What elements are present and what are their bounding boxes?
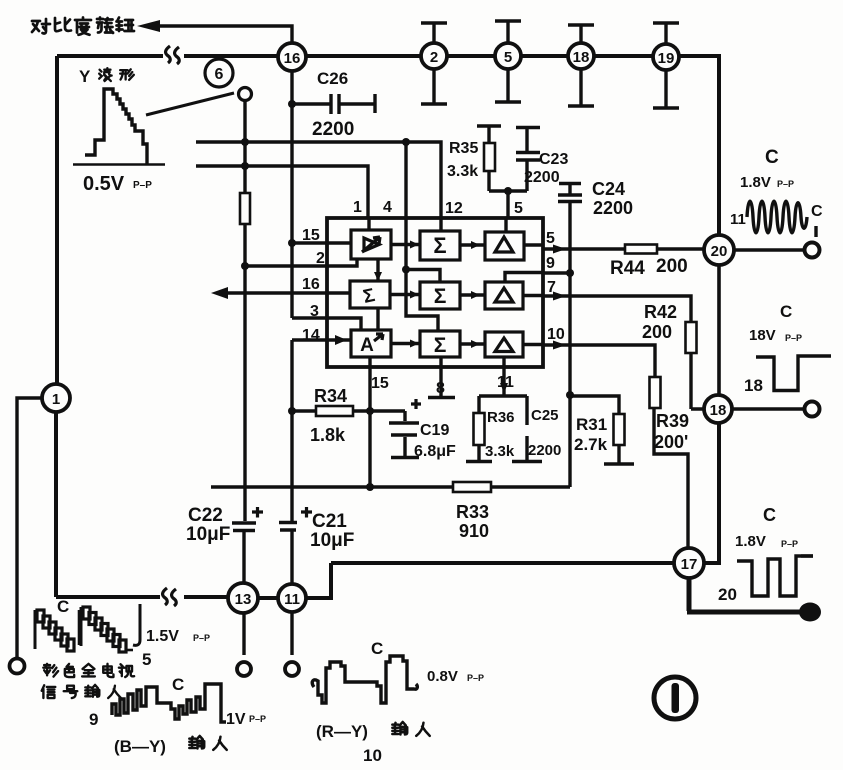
svg-text:18: 18: [573, 49, 590, 66]
svg-text:2200: 2200: [312, 119, 354, 140]
svg-text:1V: 1V: [226, 711, 246, 728]
svg-text:(B—Y): (B—Y): [114, 737, 166, 756]
svg-text:17: 17: [681, 556, 698, 573]
svg-text:0.5V: 0.5V: [83, 173, 125, 195]
svg-text:R31: R31: [576, 415, 607, 434]
svg-text:3: 3: [310, 303, 319, 320]
svg-text:15: 15: [371, 375, 389, 392]
svg-text:11: 11: [497, 374, 514, 391]
svg-text:2: 2: [316, 250, 325, 267]
svg-text:1.8k: 1.8k: [310, 425, 346, 445]
svg-text:C19: C19: [420, 422, 449, 439]
svg-text:2: 2: [430, 49, 438, 66]
svg-text:C: C: [811, 203, 823, 220]
svg-text:Y: Y: [79, 67, 91, 86]
svg-text:C25: C25: [531, 407, 559, 424]
svg-text:C: C: [172, 675, 184, 694]
svg-text:R42: R42: [644, 302, 677, 322]
svg-text:Σ: Σ: [434, 334, 447, 357]
svg-text:200: 200: [642, 322, 672, 342]
svg-text:14: 14: [302, 327, 320, 344]
svg-text:P–P: P–P: [785, 333, 802, 343]
svg-text:R35: R35: [449, 140, 478, 157]
svg-text:5: 5: [142, 650, 151, 669]
svg-text:18V: 18V: [749, 327, 776, 344]
svg-text:R36: R36: [487, 409, 515, 426]
svg-text:18: 18: [710, 402, 727, 419]
svg-text:P–P: P–P: [781, 539, 798, 549]
svg-text:10: 10: [547, 326, 565, 343]
svg-text:3.3k: 3.3k: [485, 443, 515, 460]
svg-text:C: C: [57, 597, 69, 616]
svg-text:C24: C24: [592, 179, 625, 199]
svg-text:1.5V: 1.5V: [146, 628, 179, 645]
svg-text:0.8V: 0.8V: [427, 668, 458, 685]
svg-text:C23: C23: [539, 151, 568, 168]
svg-text:C: C: [765, 147, 779, 168]
svg-text:18: 18: [744, 376, 763, 395]
svg-text:10μF: 10μF: [310, 530, 354, 551]
svg-text:C: C: [763, 505, 776, 525]
svg-text:5: 5: [546, 230, 555, 247]
svg-text:R39: R39: [656, 411, 689, 431]
svg-text:1: 1: [353, 199, 362, 216]
svg-text:P–P: P–P: [467, 673, 484, 683]
svg-text:5: 5: [514, 200, 523, 217]
svg-text:P–P: P–P: [777, 179, 794, 189]
svg-text:2.7k: 2.7k: [574, 435, 608, 454]
svg-text:4: 4: [383, 199, 392, 216]
svg-text:10: 10: [363, 746, 382, 765]
svg-text:Σ: Σ: [433, 233, 446, 258]
svg-text:2200: 2200: [528, 442, 561, 459]
svg-text:9: 9: [89, 710, 98, 729]
svg-text:16: 16: [284, 50, 301, 67]
svg-text:6: 6: [215, 66, 224, 83]
svg-text:Σ: Σ: [434, 285, 447, 308]
svg-text:8: 8: [436, 380, 445, 397]
svg-text:20: 20: [718, 585, 737, 604]
svg-text:P–P: P–P: [193, 633, 210, 643]
svg-text:(R—Y): (R—Y): [316, 722, 368, 741]
svg-text:11: 11: [284, 591, 300, 608]
svg-text:3.3k: 3.3k: [447, 163, 478, 180]
svg-text:19: 19: [658, 50, 675, 67]
svg-text:1.8V: 1.8V: [735, 533, 766, 550]
svg-text:200': 200': [654, 432, 688, 452]
svg-text:C: C: [371, 639, 383, 658]
svg-text:20: 20: [711, 243, 728, 260]
svg-text:1.8V: 1.8V: [740, 174, 771, 191]
svg-text:A: A: [360, 335, 374, 356]
svg-text:R33: R33: [456, 502, 489, 522]
svg-text:6.8μF: 6.8μF: [414, 443, 456, 460]
svg-text:P–P: P–P: [249, 714, 266, 724]
svg-text:15: 15: [302, 227, 320, 244]
svg-text:16: 16: [302, 276, 320, 293]
svg-text:200: 200: [656, 256, 688, 277]
svg-text:C22: C22: [188, 505, 223, 526]
svg-text:Σ: Σ: [361, 285, 377, 308]
svg-text:910: 910: [459, 521, 489, 541]
svg-text:12: 12: [445, 200, 463, 217]
svg-text:P–P: P–P: [133, 180, 152, 191]
svg-text:9: 9: [546, 255, 555, 272]
svg-text:13: 13: [235, 591, 252, 608]
svg-text:10μF: 10μF: [186, 524, 230, 545]
svg-text:2200: 2200: [524, 169, 560, 186]
svg-text:5: 5: [504, 49, 512, 66]
svg-text:R44: R44: [610, 258, 645, 279]
svg-text:R34: R34: [314, 386, 347, 406]
svg-text:C21: C21: [312, 511, 347, 532]
svg-text:2200: 2200: [593, 198, 633, 218]
svg-text:1: 1: [52, 391, 60, 408]
svg-text:11: 11: [730, 211, 746, 228]
svg-text:C: C: [780, 302, 792, 321]
svg-text:C26: C26: [317, 69, 348, 88]
svg-text:7: 7: [547, 279, 556, 296]
